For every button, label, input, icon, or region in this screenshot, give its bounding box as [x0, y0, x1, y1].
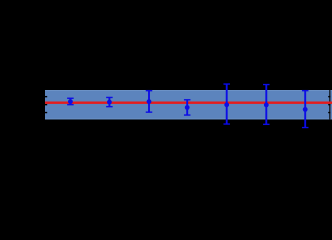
- right axis tick y=112.6: [328, 112, 330, 113]
- error bar point 3: [146, 90, 153, 113]
- right axis spine: [329, 90, 330, 119]
- error bar point 4: [184, 99, 191, 116]
- error bar point 7: [302, 90, 309, 128]
- left axis tick y=104.7: [45, 104, 47, 105]
- uncertainty band: [45, 90, 332, 119]
- error bar point 1: [67, 98, 74, 106]
- right axis tick y=96.7: [328, 96, 330, 97]
- band top edge line: [45, 89, 332, 92]
- error bar point 2: [106, 97, 113, 108]
- left axis tick y=112.6: [45, 112, 47, 113]
- error bar point 6: [263, 84, 270, 125]
- right axis tick y=104.7: [328, 104, 330, 105]
- left axis tick y=96.7: [45, 96, 47, 97]
- reference red line: [45, 102, 332, 104]
- error bar point 5: [223, 83, 230, 124]
- band bottom edge line: [45, 118, 332, 121]
